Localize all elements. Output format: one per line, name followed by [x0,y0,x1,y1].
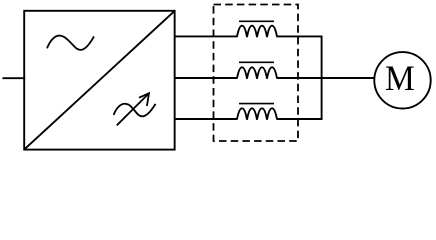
wire phase B (L2 to motor) [277,77,375,79]
svg-text:M: M [385,58,415,98]
inductor L2 coil [237,67,277,78]
arrow across variable-frequency symbol [117,94,149,126]
inductor L1 core bar [239,20,274,22]
bus joining the three phases [321,36,323,120]
wire phase A (converter to L1) [175,35,238,37]
wire phase C (converter to L3) [175,118,238,120]
inductor L3 core bar [239,103,274,105]
inductor L1 coil [237,26,277,37]
dashed enclosure (filter box) [214,5,299,142]
AC sine symbol (fixed frequency, top-left) [47,36,94,50]
arrowhead [139,93,149,106]
wire phase B (converter to L2) [175,77,238,79]
wire input line to converter [3,77,26,79]
wire phase A (L1 to bus) [277,35,323,37]
diagonal divider of converter block [25,11,175,149]
variable-frequency sine symbol (bottom-right) [114,104,156,117]
motor M1 circle [374,52,430,108]
converter block U1 (frequency converter) [24,11,174,150]
inductor L3 coil [237,108,277,119]
inductor L2 core bar [239,61,274,63]
wire phase C (L3 to bus) [277,118,323,120]
